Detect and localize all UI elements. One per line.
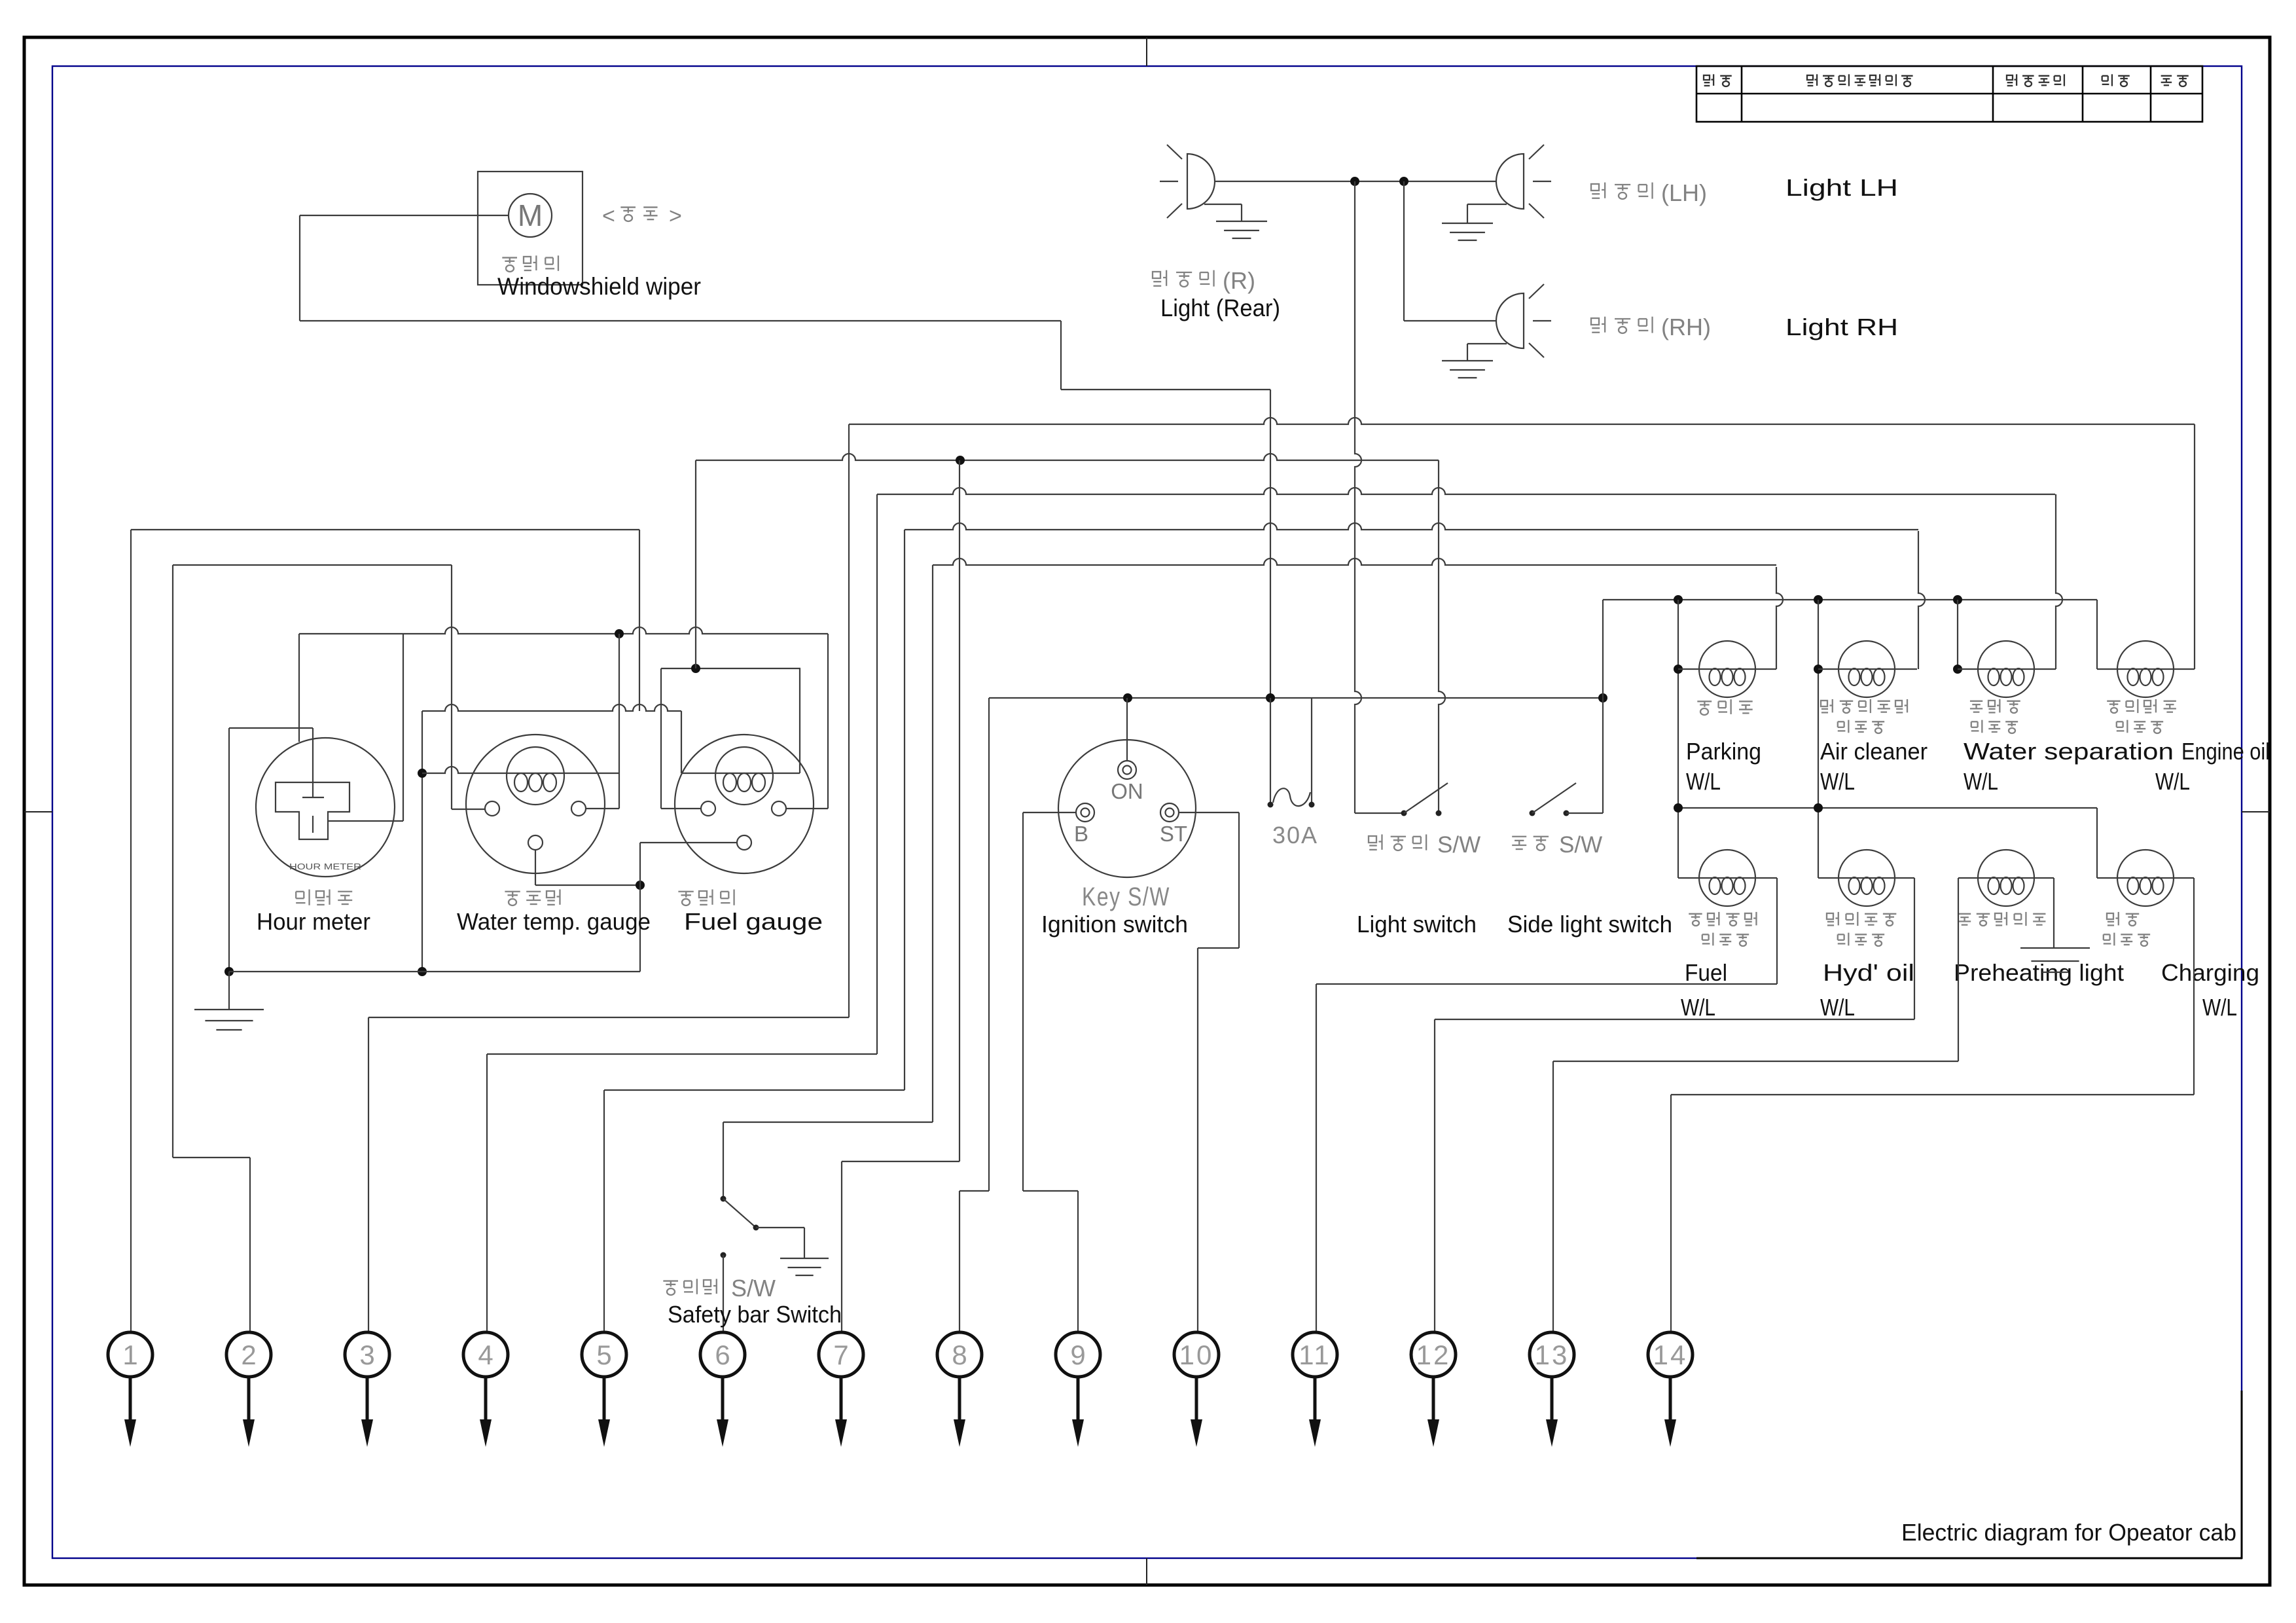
svg-text:4: 4 <box>478 1340 493 1370</box>
svg-text:9: 9 <box>1070 1340 1085 1370</box>
connector 14 <box>1648 1332 1693 1377</box>
connector 9 wire <box>1022 812 1024 1191</box>
WT coil loops <box>514 773 528 792</box>
fuel right pin <box>772 801 786 816</box>
svg-text:Light switch: Light switch <box>1357 911 1477 938</box>
connector 8 wire <box>988 698 990 1191</box>
bus2 corner down to charging left <box>2096 808 2098 878</box>
wiper drop wire <box>1270 390 1271 698</box>
svg-text:Light RH: Light RH <box>1785 314 1898 340</box>
fuel coil circle <box>715 747 773 805</box>
wiper motor M circle <box>509 194 552 237</box>
light LH ground <box>1442 223 1493 224</box>
connector 7 <box>819 1332 863 1377</box>
svg-text:1: 1 <box>122 1340 137 1370</box>
ON wire <box>1126 698 1128 761</box>
fuel bottom pin <box>737 835 751 850</box>
connector 11 <box>1293 1332 1337 1377</box>
light LH lamp <box>1496 154 1524 209</box>
fused feed line y1066 <box>989 697 1603 699</box>
svg-text:>: > <box>669 204 682 228</box>
fuel coil chord <box>681 773 800 774</box>
label 라이트(RH) <box>1591 318 1599 325</box>
drop line703 to y1021 <box>695 460 696 668</box>
light rear ground lead <box>1204 204 1242 205</box>
light RH ground <box>1442 360 1493 361</box>
light rear lamp <box>1187 154 1215 209</box>
distribution line y809 left segment <box>131 529 639 530</box>
svg-text:Water temp. gauge: Water temp. gauge <box>457 908 651 935</box>
svg-text:W/L: W/L <box>1681 994 1715 1021</box>
light LH ground lead <box>1467 204 1507 205</box>
distribution line y648 <box>849 418 2195 424</box>
junction dot side-switch riser <box>1598 693 1607 702</box>
preheating ground <box>2053 878 2054 948</box>
distribution line y863 left segment <box>173 564 452 566</box>
svg-text:10: 10 <box>1179 1340 1214 1370</box>
bus916 corner down to engine oil left <box>2096 600 2098 669</box>
connector 12 wire (hyd oil W/L) <box>1914 878 1915 1019</box>
svg-text:W/L: W/L <box>2202 994 2237 1021</box>
connector 7 arrow <box>840 1377 843 1427</box>
svg-text:B: B <box>1074 822 1088 846</box>
main ground symbol <box>228 972 230 1010</box>
svg-text:5: 5 <box>596 1340 611 1370</box>
connector 12 <box>1411 1332 1456 1377</box>
ignition switch circle <box>1058 740 1196 877</box>
light bus vertical down from junction <box>1355 181 1361 813</box>
svg-text:ST: ST <box>1160 822 1187 846</box>
svg-text:Hour meter: Hour meter <box>257 908 370 935</box>
connector 4 arrow <box>484 1377 488 1427</box>
junction dot ignition ON tap <box>1123 693 1132 702</box>
centering tick top <box>1146 37 1147 66</box>
connector 8 <box>937 1332 982 1377</box>
centering tick left <box>24 811 52 812</box>
table header 설변일자 <box>2007 75 2013 80</box>
light RH rays <box>1529 284 1544 299</box>
svg-text:Light (Rear): Light (Rear) <box>1160 295 1280 321</box>
WT right pin riser <box>619 634 620 809</box>
label 수온계 <box>505 891 520 892</box>
svg-text:(LH): (LH) <box>1661 179 1707 206</box>
connector 6 arrow <box>721 1377 725 1427</box>
revision table top right <box>1696 66 2202 122</box>
connector 14 arrow <box>1669 1377 1672 1427</box>
windshield wiper box <box>478 172 583 285</box>
junction dot y703/x1467 <box>956 456 965 465</box>
bus2 y1234 <box>1678 807 2097 809</box>
hour meter right lead <box>328 820 403 822</box>
svg-text:ON: ON <box>1111 779 1143 803</box>
connector 1 arrow <box>129 1377 132 1427</box>
junction dot rail968 <box>615 629 624 638</box>
dot hour ground tap <box>224 967 234 976</box>
svg-text:Windowshield wiper: Windowshield wiper <box>497 273 701 300</box>
B wire <box>1023 812 1076 813</box>
connector 11 arrow <box>1314 1377 1317 1427</box>
WT bottom pin <box>528 835 543 850</box>
distribution line y703 <box>696 454 1439 460</box>
connector 2 <box>226 1332 271 1377</box>
fuel coil loops <box>723 773 736 792</box>
warning lamp drops row1 <box>1677 600 1679 878</box>
svg-text:8: 8 <box>952 1340 967 1370</box>
light switch drop from line703 <box>1439 460 1445 813</box>
svg-text:W/L: W/L <box>1820 994 1855 1021</box>
junction dot y1021 <box>691 664 700 673</box>
wire to RH lamp <box>1403 181 1405 321</box>
dot x978 <box>636 881 645 890</box>
connector 14 wire (charging) <box>2193 878 2195 1095</box>
label 안전바 S/W <box>663 1280 678 1281</box>
connector 2 wire <box>172 565 173 1158</box>
wiper feed wire <box>300 215 509 216</box>
WT left pin <box>485 801 499 816</box>
drop rail968 left end to hour meter <box>298 634 300 742</box>
label 시간계 <box>296 891 304 892</box>
main ground line <box>229 971 640 972</box>
fuel gauge circle <box>675 735 814 873</box>
label 라이트(LH) <box>1591 184 1599 191</box>
light switch feed from light bus <box>1355 812 1404 814</box>
warning lamp water separation W/L <box>1978 641 2034 697</box>
hour meter ground lead <box>229 727 313 729</box>
svg-text:3: 3 <box>359 1340 374 1370</box>
connector 12 arrow <box>1432 1377 1435 1427</box>
light switch contacts and blade <box>1401 811 1407 816</box>
connector 6 wire + safety bar <box>932 565 933 1122</box>
connector 7 wire <box>959 460 960 1161</box>
svg-text:12: 12 <box>1416 1340 1451 1370</box>
rail1086 right corner drop <box>681 711 682 773</box>
junction dot RH tap <box>1399 177 1408 186</box>
connector 1 <box>108 1332 152 1377</box>
ST wire <box>1179 812 1239 813</box>
hour meter inner symbol <box>276 782 350 839</box>
label 미등S/W <box>1512 836 1526 837</box>
connector 13 <box>1530 1332 1574 1377</box>
svg-text:6: 6 <box>715 1340 730 1370</box>
junction dot wiper/fuse tap <box>1266 693 1275 702</box>
table header 확인 <box>2102 75 2108 77</box>
warning lamp parking W/L <box>1699 641 1755 697</box>
svg-text:S/W: S/W <box>731 1275 776 1302</box>
svg-text:14: 14 <box>1653 1340 1688 1370</box>
warning lamp engine oil W/L <box>2117 641 2174 697</box>
bus y916 risers hopping (lamp right leads) <box>1776 567 1783 669</box>
warning lamp air cleaner W/L <box>1839 641 1895 697</box>
dot ground line x645 <box>418 967 427 976</box>
rail y1086 <box>422 704 681 711</box>
table header 기호 <box>1704 75 1710 80</box>
title block black border segments <box>1696 1558 2242 1559</box>
connector 5 <box>582 1332 626 1377</box>
svg-text:Water separation: Water separation <box>1964 738 2174 765</box>
connector 3 wire <box>848 424 850 1017</box>
B contact <box>1076 803 1094 822</box>
svg-text:Fuel: Fuel <box>1685 959 1727 986</box>
svg-text:7: 7 <box>833 1340 848 1370</box>
svg-text:Fuel gauge: Fuel gauge <box>684 908 823 935</box>
row1 labels <box>1697 701 1712 702</box>
connector 11 wire (fuel W/L) <box>1776 878 1778 984</box>
table header 설변근거 및 내용 <box>1807 75 1813 80</box>
side light switch contacts and blade <box>1530 811 1535 816</box>
svg-text:Side light switch: Side light switch <box>1507 911 1672 938</box>
label 와이퍼 <box>502 257 517 258</box>
connector 13 wire (preheating) <box>1958 878 1959 1061</box>
safety bar ground <box>780 1258 829 1259</box>
svg-text:S/W: S/W <box>1559 832 1602 858</box>
WT chord riser / ground drop x645 <box>422 711 423 972</box>
centering tick bottom <box>1146 1558 1147 1585</box>
svg-text:Parking: Parking <box>1686 738 1761 765</box>
svg-text:W/L: W/L <box>1964 768 1998 795</box>
svg-text:W/L: W/L <box>1686 768 1721 795</box>
distribution line y809 right segment <box>905 523 1918 530</box>
WT coil chord <box>422 767 619 773</box>
row2 labels <box>1689 913 1702 915</box>
warning lamp hyd oil W/L <box>1839 850 1895 906</box>
label 라이트S/W <box>1369 836 1376 843</box>
fuel left pin drop <box>660 668 662 809</box>
svg-text:<: < <box>602 204 615 228</box>
svg-text:11: 11 <box>1299 1340 1331 1370</box>
warning lamp preheating light <box>1978 850 2034 906</box>
connector 4 wire <box>876 494 878 1054</box>
water temp gauge circle <box>466 735 605 873</box>
connector 2 arrow <box>247 1377 251 1427</box>
light RH ground lead <box>1467 343 1507 344</box>
connector 9 <box>1056 1332 1100 1377</box>
connector 1 wire <box>130 530 132 1332</box>
svg-text:W/L: W/L <box>2155 768 2190 795</box>
fuel right pin riser <box>827 634 829 809</box>
svg-text:Preheating light: Preheating light <box>1954 959 2124 986</box>
svg-text:M: M <box>518 198 543 232</box>
distribution line y863 right segment <box>933 558 1776 565</box>
light rear rays <box>1167 145 1182 159</box>
junction dot light bus <box>1350 177 1359 186</box>
WT bottom pin wire <box>535 850 536 885</box>
WT coil circle <box>507 747 564 805</box>
connector 3 arrow <box>366 1377 369 1427</box>
label 라이트(R) <box>1153 272 1160 278</box>
connector 10 <box>1174 1332 1219 1377</box>
connector 4 <box>463 1332 508 1377</box>
fuel left pin <box>701 801 715 816</box>
svg-text:Safety bar Switch: Safety bar Switch <box>668 1301 842 1328</box>
wire rear lamp to junctions <box>1215 181 1496 182</box>
link line y1021 <box>661 668 800 669</box>
ON contact <box>1118 761 1136 779</box>
fuel bottom drop <box>640 842 737 843</box>
svg-text:Light LH: Light LH <box>1785 174 1898 201</box>
side switch riser <box>1602 600 1604 813</box>
fuse 30A <box>1270 698 1271 805</box>
distribution line y755 <box>877 488 2055 494</box>
hour meter circle <box>256 738 395 877</box>
svg-text:Air cleaner: Air cleaner <box>1820 738 1928 765</box>
svg-text:Ignition switch: Ignition switch <box>1041 911 1188 938</box>
table header 비고 <box>2161 75 2172 77</box>
svg-text:(R): (R) <box>1223 267 1255 294</box>
svg-text:2: 2 <box>241 1340 256 1370</box>
light RH lamp <box>1496 293 1524 348</box>
connector 13 arrow <box>1551 1377 1554 1427</box>
safety bar switch <box>721 1196 726 1202</box>
ST contact <box>1160 803 1179 822</box>
engine oil right lead riser <box>2194 424 2195 669</box>
warning lamp fuel W/L <box>1699 850 1755 906</box>
fuel chord right riser <box>799 668 800 773</box>
svg-text:Charging: Charging <box>2161 959 2259 986</box>
warning lamp charging W/L <box>2117 850 2174 906</box>
connector 8 arrow <box>958 1377 961 1427</box>
connector 9 arrow <box>1077 1377 1080 1427</box>
svg-text:(RH): (RH) <box>1661 314 1711 340</box>
dot WT chord <box>418 769 427 778</box>
connector 10 arrow <box>1195 1377 1198 1427</box>
svg-text:13: 13 <box>1535 1340 1570 1370</box>
svg-text:Electric diagram for Opeator c: Electric diagram for Opeator cab <box>1901 1519 2236 1546</box>
connector 3 <box>345 1332 389 1377</box>
connector 5 wire <box>904 530 905 1090</box>
drop line809a to rail area <box>639 530 640 711</box>
drop line863a to WT left pin <box>451 565 452 809</box>
connector 5 arrow <box>603 1377 606 1427</box>
light LH rays <box>1529 145 1544 159</box>
svg-text:Key S/W: Key S/W <box>1082 883 1170 911</box>
svg-text:W/L: W/L <box>1820 768 1855 795</box>
svg-text:HOUR METER: HOUR METER <box>289 862 361 871</box>
rail y968 <box>299 627 828 634</box>
svg-text:Engine oil: Engine oil <box>2181 738 2270 765</box>
svg-text:S/W: S/W <box>1437 832 1480 858</box>
label 연료계 <box>678 891 693 892</box>
connector 10 wire (ST) <box>1238 812 1240 948</box>
light rear ground <box>1216 221 1267 222</box>
svg-text:Hyd' oil: Hyd' oil <box>1823 959 1914 986</box>
centering tick right <box>2242 811 2270 812</box>
warning feed bus y916 <box>1603 599 2097 600</box>
svg-text:30A: 30A <box>1272 822 1318 848</box>
WT right pin <box>571 801 586 816</box>
connector 6 <box>700 1332 745 1377</box>
